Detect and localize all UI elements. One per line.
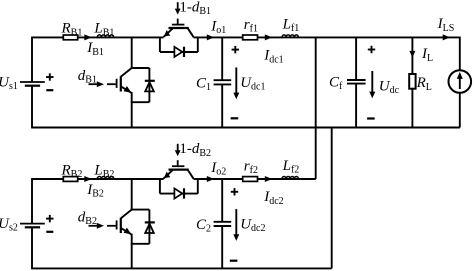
battery Us1 plus sign xyxy=(46,73,53,80)
node plus sign C2 xyxy=(231,188,238,195)
resistor RB2 xyxy=(63,177,77,182)
wire top rail left segment xyxy=(32,36,164,38)
capacitor Cf xyxy=(347,37,366,128)
inductor Lf2 xyxy=(282,177,298,180)
node plus sign Cf xyxy=(368,46,375,53)
diode D1 loop (antiparallel with Q1) xyxy=(131,68,150,102)
battery Us2 xyxy=(20,224,45,228)
capacitor C1 xyxy=(214,37,232,128)
wire bottom rail of bottom converter xyxy=(31,267,332,269)
wire top rail right segment (bottom converter) xyxy=(194,178,316,180)
transistor Q1 (IGBT dB1) xyxy=(107,68,132,93)
resistor rf2 xyxy=(243,177,258,182)
resistor RB1 xyxy=(63,35,77,40)
node minus sign Cf xyxy=(367,117,375,119)
node A vertical wire lower xyxy=(131,92,133,127)
arrow Udc2 xyxy=(233,209,239,241)
arrow Io2 xyxy=(207,176,215,182)
wire left column lower xyxy=(31,86,33,128)
arrow Io1 xyxy=(207,34,215,40)
resistor RL xyxy=(409,74,415,89)
resistor rf1 xyxy=(243,35,258,40)
current source ILS circle xyxy=(449,37,472,128)
arrow ILS xyxy=(443,34,451,40)
inductor Lf1 xyxy=(282,35,298,38)
diode D2 (series block bottom) xyxy=(160,37,198,58)
arrow Udc xyxy=(369,71,375,98)
battery Us1 minus sign xyxy=(46,89,53,91)
battery Us2 plus sign xyxy=(46,215,53,222)
arrow dB1 gate xyxy=(89,81,105,87)
node B vertical wire upper xyxy=(131,178,133,211)
diode D4 (series block bottom, bottom converter) xyxy=(160,178,198,199)
node plus sign C1 xyxy=(232,46,239,53)
diode D1 xyxy=(145,81,155,92)
arrow IL xyxy=(409,51,415,58)
transistor Q4 (IGBT 1-dB2) xyxy=(164,160,194,179)
capacitor C2 xyxy=(214,178,232,268)
diode D3 loop (antiparallel with Q3) xyxy=(131,210,150,244)
node minus sign C1 xyxy=(231,117,239,119)
battery Us2 minus sign xyxy=(46,231,53,233)
inductor LB1 xyxy=(97,35,113,38)
resistor RL branch wires xyxy=(411,37,413,128)
arrow 1-dB2 xyxy=(175,144,181,156)
wire left column lower (bottom converter) xyxy=(31,227,33,268)
diode D3 xyxy=(145,222,155,233)
arrow 1-dB1 xyxy=(175,2,181,14)
wire left column upper xyxy=(31,37,33,83)
node A vertical wire upper xyxy=(131,37,133,70)
wire left column upper (bottom converter) xyxy=(31,178,33,224)
arrow dB2 gate xyxy=(89,223,105,229)
transistor Q3 (IGBT dB2) xyxy=(107,210,132,235)
node minus sign C2 xyxy=(230,260,238,262)
wire top rail right segment xyxy=(194,36,460,38)
transistor Q2 (IGBT 1-dB1) xyxy=(164,19,194,38)
node B vertical wire lower xyxy=(131,234,133,269)
arrow IB2 xyxy=(84,176,92,182)
arrow Udc1 xyxy=(233,68,239,100)
wire top rail left segment (bottom converter) xyxy=(32,178,164,180)
wire interconnect plus (bus A) xyxy=(315,37,317,180)
arrow Idc1 xyxy=(265,34,273,40)
battery Us1 xyxy=(20,82,45,86)
inductor LB2 xyxy=(97,176,113,179)
wire bottom rail of top converter xyxy=(31,127,460,129)
wire interconnect minus (bus B) xyxy=(331,128,333,269)
arrow Idc2 xyxy=(265,176,273,182)
arrow IB1 xyxy=(84,34,92,40)
